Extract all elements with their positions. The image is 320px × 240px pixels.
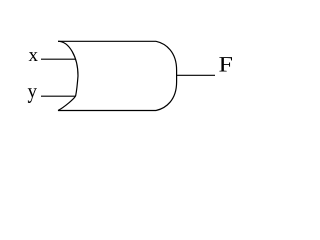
label x (input net x) — [29, 52, 38, 61]
wire input y — [41, 95, 76, 97]
OR gate U1 body — [58, 41, 177, 110]
label F (output net F) — [219, 57, 232, 71]
wire output F — [177, 74, 215, 76]
wire input x — [41, 58, 76, 60]
label y (input net y) — [28, 88, 37, 103]
